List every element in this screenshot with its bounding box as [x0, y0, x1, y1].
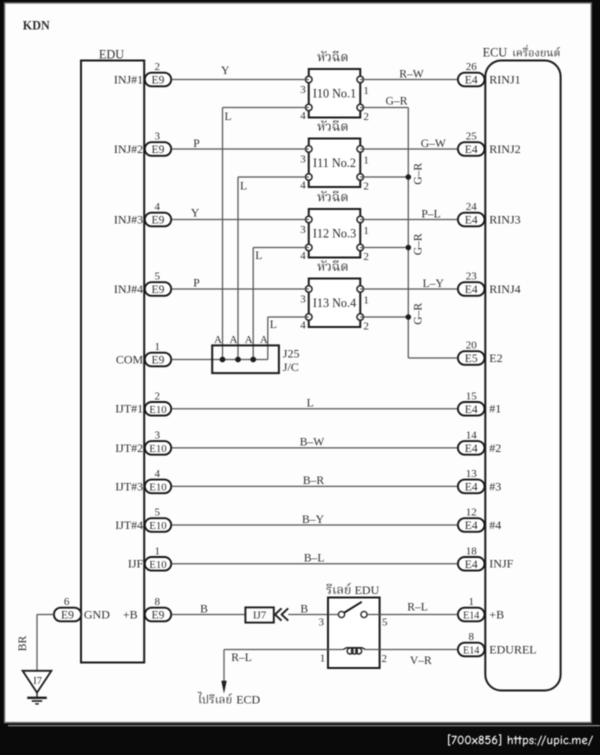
svg-text:E4: E4: [465, 74, 478, 87]
injector I11 (I11 No.2) หัวฉีด: [300, 120, 369, 192]
svg-text:I13 No.4: I13 No.4: [313, 296, 356, 310]
svg-text:2: 2: [155, 391, 161, 403]
pin E9-4 INJ#3 on EDU: [114, 201, 171, 226]
svg-text:3: 3: [318, 617, 324, 629]
node label A (wire 1 into J25): [214, 334, 222, 346]
wire V-R from relay pin 2 to E14-8 EDUREL: [380, 650, 458, 667]
svg-text:2: 2: [363, 251, 369, 263]
svg-text:E4: E4: [465, 283, 478, 296]
svg-text:3: 3: [300, 224, 306, 236]
pin E10-5 IJT#4 on EDU: [115, 507, 171, 532]
svg-text:#3: #3: [489, 479, 501, 493]
svg-text:18: 18: [466, 546, 478, 558]
svg-text:3: 3: [300, 154, 306, 166]
svg-text:E4: E4: [465, 519, 478, 532]
injector I10 (I10 No.1) หัวฉีด: [300, 51, 369, 123]
svg-text:3: 3: [155, 430, 161, 442]
svg-text:I10 No.1: I10 No.1: [313, 86, 356, 100]
node label A (wire 2 into J25): [230, 334, 238, 346]
wire B-Y IJT#4/#4: [172, 513, 458, 526]
pin E4-24 RINJ3 on ECU: [458, 201, 521, 226]
svg-text:E10: E10: [149, 481, 166, 493]
svg-text:3: 3: [300, 294, 306, 306]
svg-text:E9: E9: [152, 143, 165, 156]
pin E10-2 IJT#1 on EDU: [115, 391, 171, 416]
svg-text:E4: E4: [465, 143, 478, 156]
pin E10-3 IJT#2 on EDU: [115, 430, 171, 455]
svg-text:1: 1: [468, 596, 474, 608]
svg-text:P–L: P–L: [421, 207, 440, 220]
wire B from +B (E9-8) to IJ7: [172, 602, 246, 615]
svg-text:1: 1: [155, 546, 161, 558]
svg-text:1: 1: [155, 341, 161, 353]
svg-text:8: 8: [468, 631, 474, 643]
svg-text:E9: E9: [152, 283, 165, 296]
svg-text:E9: E9: [152, 354, 165, 367]
svg-text:E9: E9: [152, 214, 165, 227]
svg-text:+B: +B: [123, 607, 138, 621]
svg-text:23: 23: [466, 271, 478, 283]
pin E4-23 RINJ4 on ECU: [458, 271, 521, 296]
svg-text:B–R: B–R: [303, 474, 325, 487]
pin E5-20 E2 on ECU: [458, 340, 503, 365]
wire L from I13 pin 4 down to J25 (net A): [268, 317, 309, 360]
pin E9-3 INJ#2 on EDU: [114, 131, 171, 156]
svg-text:26: 26: [466, 61, 478, 73]
svg-text:#1: #1: [489, 402, 501, 416]
svg-text:2: 2: [363, 180, 369, 192]
svg-text:E10: E10: [149, 443, 166, 455]
wire P from INJ#2 to I11 pin 3: [172, 137, 309, 150]
svg-text:EDU: EDU: [99, 48, 124, 62]
svg-text:L: L: [307, 397, 314, 410]
svg-text:J25: J25: [283, 347, 300, 361]
pin E9-5 INJ#4 on EDU: [114, 271, 171, 296]
svg-text:IJT#2: IJT#2: [115, 441, 143, 455]
svg-text:14: 14: [466, 430, 478, 442]
wire G-R from I10 pin 2 (corner): [360, 94, 408, 358]
wire Y from INJ#3 to I12 pin 3: [172, 207, 309, 220]
svg-text:E4: E4: [465, 403, 478, 416]
svg-text:E5: E5: [465, 352, 478, 365]
svg-text:RINJ1: RINJ1: [489, 72, 520, 86]
svg-text:COM: COM: [116, 352, 144, 366]
svg-text:12: 12: [466, 507, 477, 519]
watermark [700x856]https://upic.me/: [448, 734, 593, 746]
wire R-W from I10 pin 1 to RINJ1: [360, 67, 457, 80]
svg-text:V–R: V–R: [410, 654, 432, 667]
svg-text:INJ#1: INJ#1: [114, 72, 143, 86]
svg-text:IJT#1: IJT#1: [115, 402, 143, 416]
svg-text:#2: #2: [489, 441, 501, 455]
wire L-Y from I13 pin 1 to RINJ4: [360, 277, 457, 290]
junction dot A2 in J25: [235, 357, 241, 363]
svg-text:3: 3: [300, 84, 306, 96]
svg-text:E10: E10: [149, 520, 166, 532]
svg-text:IJT#4: IJT#4: [115, 518, 143, 532]
connector EDU: [81, 48, 144, 663]
svg-text:15: 15: [466, 391, 478, 403]
svg-text:5: 5: [382, 617, 388, 629]
svg-text:B: B: [200, 602, 208, 615]
svg-text:Y: Y: [191, 207, 200, 220]
svg-text:L: L: [225, 110, 232, 123]
svg-text:2: 2: [363, 111, 369, 123]
pin E9-8 +B on EDU: [145, 596, 171, 621]
pin E14-1 +B on ECU: [458, 596, 504, 621]
svg-text:A: A: [214, 334, 222, 346]
wire L IJT#1/#1: [172, 397, 458, 410]
wire R-L branch from relay pin 1 to ECD relay (arrow): [221, 650, 328, 694]
svg-text:P: P: [193, 137, 199, 150]
svg-text:J/C: J/C: [283, 360, 299, 374]
svg-text:B–W: B–W: [300, 436, 325, 449]
wire L from I11 pin 4 down to J25 (net A): [238, 177, 309, 360]
wire B-W IJT#2/#2: [172, 436, 458, 449]
pin E4-12 #4 on ECU: [458, 507, 501, 532]
svg-text:P: P: [193, 277, 199, 290]
svg-text:ECD: ECD: [236, 692, 260, 706]
svg-text:I12 No.3: I12 No.3: [313, 226, 356, 240]
svg-text:EDUREL: EDUREL: [489, 642, 536, 656]
svg-text:13: 13: [466, 468, 478, 480]
pin E9-6 GND on EDU (left side): [54, 596, 138, 622]
svg-text:5: 5: [155, 507, 161, 519]
svg-text:24: 24: [466, 201, 478, 213]
svg-text:KDN: KDN: [23, 19, 50, 33]
junction block J25 J/C: [212, 345, 299, 373]
svg-text:25: 25: [466, 131, 478, 143]
svg-text:A: A: [260, 334, 268, 346]
svg-text:RINJ4: RINJ4: [489, 282, 520, 296]
svg-text:20: 20: [466, 340, 478, 352]
svg-text:4: 4: [155, 201, 161, 213]
wire B-L IJF/INJF: [172, 552, 458, 565]
svg-text:#4: #4: [489, 518, 501, 532]
svg-text:8: 8: [155, 596, 161, 608]
svg-text:B: B: [300, 602, 308, 615]
svg-text:G–R: G–R: [386, 94, 408, 107]
pin E4-18 INJF on ECU: [458, 546, 514, 571]
svg-text:4: 4: [300, 180, 306, 192]
wire from COM (E9-1) into J25: [172, 359, 268, 361]
svg-text:E4: E4: [465, 480, 478, 493]
relay EDU (รีเลย์ EDU): [318, 583, 388, 668]
svg-text:GND: GND: [84, 607, 110, 621]
svg-text:E9: E9: [152, 74, 165, 87]
svg-text:G–R: G–R: [411, 233, 424, 255]
svg-text:IJT#3: IJT#3: [115, 479, 143, 493]
svg-text:I11 No.2: I11 No.2: [313, 156, 356, 170]
svg-text:B–Y: B–Y: [302, 513, 325, 526]
svg-text:A: A: [230, 334, 238, 346]
wire B-R IJT#3/#3: [172, 474, 458, 487]
svg-text:INJ#3: INJ#3: [114, 212, 143, 226]
svg-text:ECU: ECU: [483, 45, 508, 59]
svg-text:2: 2: [363, 320, 369, 332]
svg-text:E9: E9: [152, 609, 165, 622]
svg-text:E10: E10: [149, 559, 166, 571]
svg-text:2: 2: [155, 61, 161, 73]
svg-text:E2: E2: [489, 351, 502, 365]
node label A (wire 3 into J25): [245, 334, 253, 346]
svg-text:4: 4: [300, 110, 306, 122]
svg-text:IJF: IJF: [128, 557, 144, 571]
chevron arrows after IJ7: [275, 608, 288, 620]
pin E10-1 IJF on EDU: [128, 546, 171, 571]
pin E9-2 INJ#1 on EDU: [114, 61, 171, 86]
svg-text:1: 1: [363, 154, 369, 166]
svg-text:+B: +B: [489, 607, 504, 621]
junction dot A3 in J25: [250, 357, 256, 363]
svg-text:2: 2: [381, 653, 387, 665]
junction dot A1 in J25: [220, 357, 226, 363]
pin E10-4 IJT#3 on EDU: [115, 468, 171, 493]
svg-text:INJ#2: INJ#2: [114, 142, 143, 156]
svg-text:RINJ2: RINJ2: [489, 142, 520, 156]
svg-text:BR: BR: [16, 636, 29, 652]
wire L from I10 pin 4 down to J25 (net A): [223, 108, 309, 360]
svg-text:Y: Y: [221, 64, 230, 77]
svg-text:RINJ3: RINJ3: [489, 212, 520, 226]
connector ECU (ECU เครื่องยนต์): [483, 45, 561, 691]
pin E4-25 RINJ2 on ECU: [458, 131, 521, 156]
svg-text:L: L: [240, 179, 247, 192]
svg-text:3: 3: [155, 131, 161, 143]
svg-text:L: L: [270, 318, 277, 331]
svg-text:1: 1: [320, 652, 326, 664]
node label A (wire 4 into J25): [260, 334, 268, 346]
svg-text:4: 4: [300, 250, 306, 262]
svg-text:E4: E4: [465, 214, 478, 227]
pin E4-26 RINJ1 on ECU: [458, 61, 521, 86]
wire R-L from relay pin 5 to E14-1 +B: [380, 600, 458, 614]
svg-text:5: 5: [155, 271, 161, 283]
svg-text:6: 6: [64, 596, 70, 608]
wire G-W from I11 pin 1 to RINJ2: [360, 137, 457, 150]
pin E4-13 #3 on ECU: [458, 468, 501, 493]
wire G-R from I12 pin 2 to bus, junction dot: [360, 233, 424, 255]
svg-text:EDU: EDU: [355, 583, 380, 597]
injector I13 (I13 No.4) หัวฉีด: [300, 260, 369, 332]
wire G-R from I13 pin 2 to bus, junction dot: [360, 303, 424, 325]
svg-text:L: L: [255, 249, 262, 262]
svg-text:G–W: G–W: [421, 137, 446, 150]
svg-text:1: 1: [363, 225, 369, 237]
svg-text:G–R: G–R: [411, 163, 424, 185]
svg-text:1: 1: [363, 85, 369, 97]
pin E4-14 #2 on ECU: [458, 430, 501, 455]
svg-text:INJ#4: INJ#4: [114, 282, 143, 296]
pin E9-1 COM on EDU: [116, 341, 171, 366]
wire B from IJ7 to relay pin 3: [288, 602, 328, 615]
svg-text:4: 4: [300, 320, 306, 332]
svg-text:4: 4: [155, 468, 161, 480]
wire G-R bus to pin E5-20 (E2): [408, 357, 457, 359]
svg-text:E9: E9: [61, 609, 74, 622]
svg-text:A: A: [245, 334, 253, 346]
wire G-R from I11 pin 2 to bus, junction dot: [360, 163, 424, 185]
injector I12 (I12 No.3) หัวฉีด: [300, 191, 369, 263]
wire Y from INJ#1 to I10 pin 3: [172, 64, 309, 80]
ground I7: [23, 671, 52, 704]
svg-text:E10: E10: [149, 404, 166, 416]
noise filter IJ7: [245, 607, 273, 622]
wire P-L from I12 pin 1 to RINJ3: [360, 207, 457, 220]
wire P from INJ#4 to I13 pin 3: [172, 277, 309, 290]
svg-text:G–R: G–R: [411, 303, 424, 325]
svg-text:1: 1: [363, 294, 369, 306]
svg-text:I7: I7: [33, 676, 42, 687]
pin E14-8 EDUREL on ECU: [458, 631, 537, 656]
pin E4-15 #1 on ECU: [458, 391, 501, 416]
svg-text:E4: E4: [465, 558, 478, 571]
svg-text:E4: E4: [465, 442, 478, 455]
svg-text:E14: E14: [463, 611, 479, 622]
svg-text:IJ7: IJ7: [253, 610, 267, 622]
title KDN: [23, 19, 50, 33]
svg-text:INJF: INJF: [489, 557, 513, 571]
svg-text:R–W: R–W: [399, 67, 424, 80]
wire L from I12 pin 4 down to J25 (net A): [253, 248, 309, 360]
svg-text:B–L: B–L: [304, 552, 325, 565]
svg-text:R–L: R–L: [231, 651, 252, 664]
svg-text:E14: E14: [463, 646, 479, 657]
wire BR from GND pin to ground: [16, 615, 54, 671]
svg-text:L–Y: L–Y: [423, 277, 445, 290]
note: to ECD relay (ไปรีเลย์ ECD): [197, 692, 260, 707]
svg-text:R–L: R–L: [407, 600, 428, 613]
